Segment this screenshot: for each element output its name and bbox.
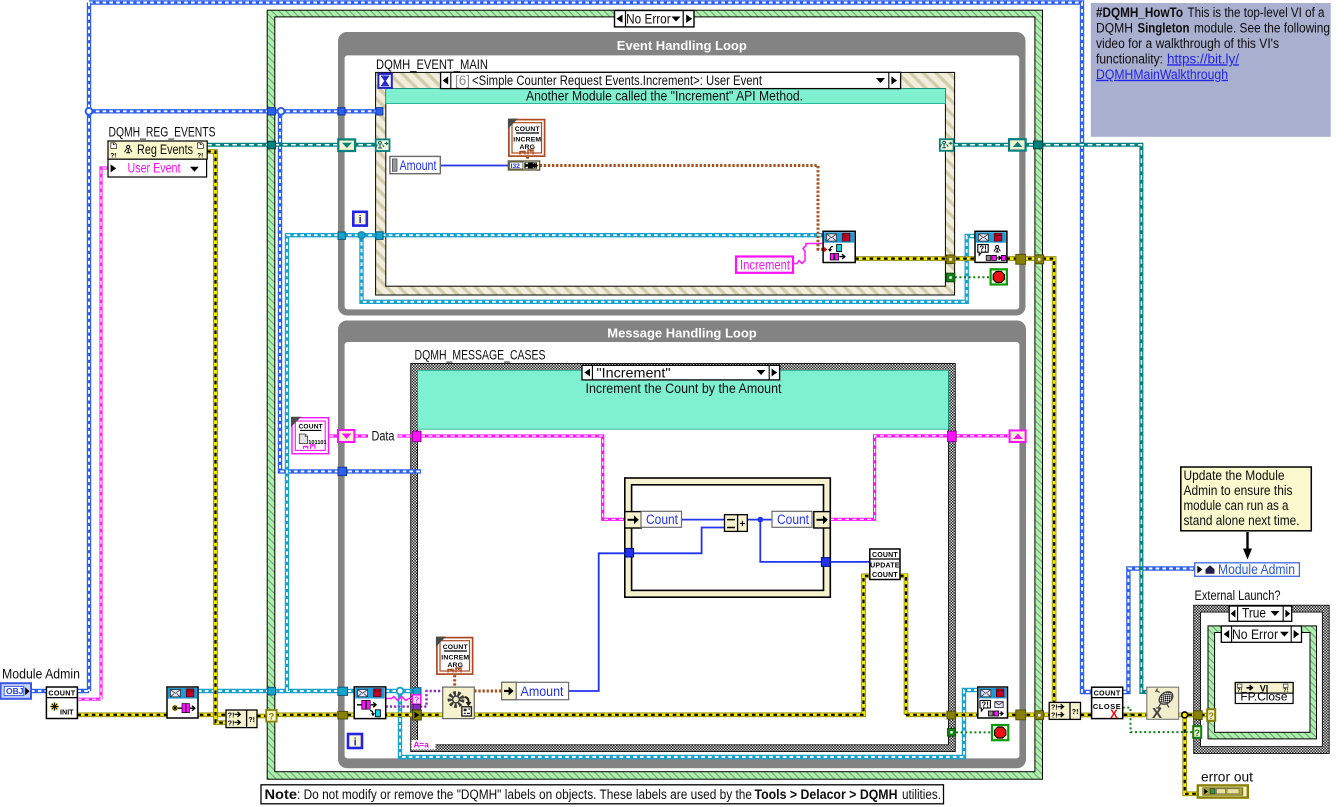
event structure DQMH_EVENT_MAIN border: [376, 72, 955, 295]
svg-text:stand alone next time.: stand alone next time.: [1184, 513, 1300, 528]
tunnel: IPE left element in: [625, 512, 641, 528]
tunnel: error on external case (olive): [1194, 711, 1203, 720]
shift register: message right (magenta up): [1010, 430, 1026, 442]
wire: module admin class top rail (blue chain): [89, 3, 1092, 693]
svg-text:video for a walkthrough of thi: video for a walkthrough of this VI's: [1096, 36, 1279, 51]
wire: message cluster to shift register (magenta): [330, 434, 339, 437]
tunnel: class wire on event loop left: [338, 108, 345, 115]
tunnel: boolean ? on external case (green): [1193, 726, 1201, 739]
svg-text:?!: ?!: [110, 152, 116, 159]
wire: message loop error out to merge 2 (yellow/black): [955, 712, 1050, 717]
message case A=a indicator: [412, 740, 436, 750]
svg-text:This is the top-level VI of a: This is the top-level VI of a: [1188, 5, 1325, 20]
svg-text:?!: ?!: [228, 720, 235, 727]
tunnel: error junction on event loop right: [1016, 254, 1026, 264]
wire: message stop boolean to loop terminal (green dotted): [956, 731, 992, 733]
svg-text:INCREM: INCREM: [441, 655, 469, 662]
control: Module Admin OBJ constant: [1, 683, 32, 699]
wire: class into event structure (blue chain): [89, 109, 376, 113]
outer case structure (No Error) border: [267, 10, 1042, 779]
dynamic event terminal left: [376, 139, 390, 151]
tunnel: IPE right element out: [814, 512, 830, 528]
svg-text:FP.Close: FP.Close: [1240, 691, 1287, 703]
svg-text:Event Handling Loop: Event Handling Loop: [617, 38, 747, 53]
svg-text:External Launch?: External Launch?: [1195, 588, 1281, 603]
external launch selector True: [1229, 606, 1292, 622]
wire: INCREM ARG type to variant VI (brown): [453, 675, 456, 687]
shift register: reg events left (teal down): [338, 139, 355, 151]
svg-text:Data: Data: [372, 429, 395, 444]
tunnel: error out of event structure (olive): [946, 255, 955, 264]
svg-text:UPDATE: UPDATE: [870, 562, 900, 569]
svg-text:Amount: Amount: [400, 158, 437, 173]
tunnel: queue on case left (cyan): [413, 688, 421, 696]
wire: class branch into message loop (blue chain): [280, 111, 421, 471]
wire: queue refnum riser to event loop (cyan chain): [287, 235, 823, 691]
wire: reg events refnum right to unregister VI (teal): [953, 145, 1146, 692]
svg-text:Amount: Amount: [521, 684, 564, 699]
message handling while loop border: [338, 321, 1026, 769]
svg-text:DQMH_MESSAGE_CASES: DQMH_MESSAGE_CASES: [415, 348, 546, 363]
wire: error rail inside message case with update VI loop (yellow/black): [421, 576, 948, 715]
svg-text:Message Handling Loop: Message Handling Loop: [607, 326, 757, 341]
svg-text:Tools > Delacor > DQMH: Tools > Delacor > DQMH: [755, 787, 898, 802]
svg-text:"Increment": "Increment": [597, 365, 671, 380]
wire: Count to add (blue numeric): [682, 519, 725, 521]
svg-text:i: i: [354, 737, 357, 749]
junction: count value branch: [757, 517, 763, 523]
tunnel: message out on case right (magenta): [948, 431, 957, 441]
wire: variant into variant-to-data VI (violet dotted): [420, 691, 443, 707]
wire: close VI to Module Admin link (blue chain): [1123, 569, 1195, 693]
svg-text:Update the Module: Update the Module: [1184, 468, 1285, 483]
dynamic event terminal right: [940, 139, 954, 151]
svg-text:[6]: [6]: [455, 73, 470, 88]
wire: queue refnum to message check VI (cyan chain): [386, 690, 978, 757]
tunnel: message data on case left (magenta): [413, 431, 421, 441]
wire: error inside external case (yellow/black): [1201, 713, 1208, 718]
control: Reg Events cluster: [108, 141, 207, 159]
label: Increment free label: [736, 257, 793, 273]
subVI: release/destroy events (X satellite): [1147, 687, 1179, 722]
control: Amount (event structure): [390, 156, 440, 173]
tunnel: class on message loop left: [338, 467, 347, 475]
tunnel: error ? on outer case left: [266, 710, 276, 723]
annotation: DQMH HowTo comment box: [1091, 3, 1331, 137]
svg-text:?: ?: [268, 712, 274, 723]
function: merge errors (right column): [1049, 702, 1080, 719]
tunnel: reg events on outer case left: [268, 141, 276, 149]
tunnel: queue refnum on outer case left: [268, 687, 276, 695]
junction: class wire branch: [278, 108, 285, 115]
in-place element structure: [625, 478, 831, 597]
svg-text:Count: Count: [777, 512, 809, 527]
svg-text:Singleton: Singleton: [1138, 20, 1190, 35]
wire: OBJ to INIT (blue chain): [31, 689, 46, 693]
event structure selector: [441, 72, 901, 88]
svg-text:functionality:: functionality:: [1096, 51, 1163, 66]
wire: INCREM ARG type to bundle (brown): [526, 157, 529, 162]
tunnel: class on event structure left: [376, 108, 383, 115]
wire: error rail INIT to merge (yellow/black): [77, 712, 226, 717]
svg-text:True: True: [1242, 606, 1266, 621]
terminal: message loop stop button: [992, 725, 1008, 740]
svg-text:INCREM: INCREM: [513, 137, 541, 144]
junction: error branch to error out: [1182, 712, 1188, 718]
tunnel: reg events on outer case right: [1034, 141, 1043, 149]
message case teal banner: [418, 370, 949, 429]
tunnel: queue on event structure left: [376, 232, 383, 240]
wire: merge out into case (yellow/black): [257, 714, 267, 719]
tunnel: error on message loop left: [338, 711, 348, 719]
terminal: message loop iteration i: [348, 734, 362, 749]
svg-text:DQMH_EVENT_MAIN: DQMH_EVENT_MAIN: [376, 57, 488, 72]
svg-text:i: i: [359, 214, 362, 226]
svg-text:A=a: A=a: [414, 741, 430, 750]
wire: Amount value riser into IPE (blue numeric): [569, 553, 626, 691]
svg-text:Count: Count: [646, 512, 678, 527]
tunnel: message name ? on case left: [412, 695, 420, 705]
subVI: COUNT UPDATE COUNT: [870, 549, 900, 580]
svg-text:INIT: INIT: [60, 708, 74, 717]
tunnel: error arrow on case left (olive): [412, 710, 421, 720]
subVI: dequeue module message: [354, 687, 386, 719]
subVI: COUNT INIT: [46, 687, 77, 719]
control: Module Admin static VI reference: [1195, 562, 1300, 577]
annotation: sticky note Update the Module Admin: [1181, 467, 1312, 531]
outer case selector: No Error: [615, 11, 695, 27]
svg-text:DQMH_REG_EVENTS: DQMH_REG_EVENTS: [109, 125, 216, 140]
svg-text:Module Admin: Module Admin: [1218, 562, 1295, 577]
svg-text:X: X: [1152, 705, 1162, 722]
svg-text:: Do not modify or remove the: : Do not modify or remove the "DQMH" lab…: [297, 787, 752, 802]
wire: merged error through close and release VIs (yellow/black): [1081, 715, 1198, 794]
inner case selector No Error: [1221, 626, 1301, 642]
terminal: event loop stop button: [991, 269, 1007, 284]
wire: amount inside IPE to add (blue numeric): [634, 528, 725, 554]
svg-text:DQMH: DQMH: [1096, 20, 1133, 35]
tunnel: class wire on outer case left: [268, 108, 276, 115]
svg-text:?!: ?!: [979, 245, 987, 254]
wire: user event refnum to ring (pink chain): [77, 168, 109, 699]
type constant: COUNT INCREM ARG (event loop): [508, 119, 545, 157]
svg-text:COUNT: COUNT: [1094, 689, 1121, 698]
subVI: check module stop (event loop): [975, 231, 1007, 262]
message case selector "Increment": [582, 365, 780, 380]
event structure timeout hourglass terminal: [378, 74, 391, 88]
wire: queue refnum create to dequeue (cyan chain): [198, 689, 354, 693]
function: variant to data: [443, 687, 475, 719]
wire: queue refnum to event check VI (cyan chain): [362, 235, 976, 302]
svg-text:+: +: [739, 519, 745, 530]
tunnel: error junction on message loop right: [1016, 710, 1026, 720]
wire: reg events error drop (yellow/black): [207, 152, 226, 723]
svg-text:?: ?: [1194, 728, 1200, 739]
inner no-error case structure border: [1208, 626, 1317, 739]
tunnel: stop boolean on case right (green): [948, 728, 956, 736]
wire: class left vertical (blue chain): [77, 3, 89, 692]
svg-text:https://bit.ly/: https://bit.ly/: [1167, 51, 1239, 66]
annotation: bottom note: [261, 785, 944, 804]
type constant: COUNT INCREM ARG (message loop): [436, 637, 473, 675]
wire: message name out of dequeue (pink squiggle): [386, 697, 413, 701]
event handling while loop border: [338, 32, 1026, 316]
junction: class wire at left riser: [86, 108, 93, 115]
indicator: Amount (message case): [502, 682, 569, 699]
function: merge errors (left column): [226, 710, 257, 728]
function: bundle I32 into cluster: [508, 161, 539, 170]
svg-text:error out: error out: [1201, 769, 1253, 784]
type constant: COUNT message queue (magenta): [291, 417, 329, 454]
subVI: check module stop (message loop): [978, 687, 1008, 718]
svg-text:COUNT: COUNT: [298, 424, 322, 431]
tunnel: message error on outer case right: [1035, 711, 1044, 720]
svg-text:Increment: Increment: [740, 257, 790, 272]
subVI: create module queue: [167, 687, 198, 718]
tunnel: variant on case left (violet): [413, 704, 421, 710]
tunnel: stop boolean out of event structure (green): [946, 273, 955, 282]
control: User Event ring: [108, 159, 207, 177]
svg-text:Reg Events: Reg Events: [137, 142, 193, 157]
svg-text:User Event: User Event: [128, 161, 181, 176]
svg-text:Note: Note: [265, 787, 298, 802]
tunnel: queue on event loop left: [338, 232, 345, 239]
svg-text:DQMHMainWalkthrough: DQMHMainWalkthrough: [1096, 67, 1228, 82]
terminal: event loop iteration i: [353, 212, 367, 226]
tunnel: error ? on inner case (olive): [1207, 709, 1215, 722]
svg-text:Module Admin: Module Admin: [2, 667, 80, 682]
event structure teal banner: [386, 88, 946, 103]
svg-text:COUNT: COUNT: [443, 644, 469, 651]
svg-text:No Error: No Error: [626, 11, 671, 26]
svg-text:#DQMH_HowTo: #DQMH_HowTo: [1096, 5, 1183, 20]
svg-text:X: X: [1110, 709, 1118, 721]
label: Data on wire: [368, 429, 398, 444]
svg-text:COUNT: COUNT: [515, 126, 541, 133]
wire: reg events refnum left (teal): [207, 143, 376, 147]
wire: Increment label to enqueue VI (pink squiggle): [793, 244, 823, 264]
svg-text:Increment the Count by the Amo: Increment the Count by the Amount: [586, 381, 782, 396]
tunnel: error out on case right (olive): [947, 711, 956, 719]
tunnel: IPE right blue square: [821, 558, 830, 567]
svg-text:?: ?: [414, 695, 419, 705]
indicator: error out cluster: [1198, 785, 1248, 797]
svg-text:module. See the following: module. See the following: [1194, 20, 1330, 35]
wire: Data wire into case and to IPE (magenta): [354, 436, 625, 519]
svg-text:?!: ?!: [1072, 709, 1079, 716]
svg-text:utilities.: utilities.: [902, 787, 941, 802]
svg-text:?!: ?!: [1051, 713, 1058, 720]
svg-text:?!: ?!: [981, 700, 989, 709]
svg-text:COUNT: COUNT: [48, 689, 75, 698]
annotation arrow to Module Admin: [1243, 532, 1252, 560]
wire: Amount control to bundle (blue numeric): [440, 165, 508, 167]
shift register: reg events right (teal up): [1009, 139, 1026, 150]
function: increment/add node: [725, 515, 748, 532]
indicator: Count (IPE right): [772, 511, 812, 527]
tunnel: IPE left blue square: [625, 548, 634, 557]
message case structure DQMH_MESSAGE_CASES border: [411, 363, 956, 751]
svg-text:<Simple Counter Request Events: <Simple Counter Request Events.Increment…: [472, 73, 762, 88]
wire: message out of IPE to right shift register (magenta): [830, 436, 1010, 519]
svg-text:COUNT: COUNT: [872, 572, 898, 579]
svg-text:No Error: No Error: [1232, 627, 1278, 642]
wire: error rail to dequeue and case tunnel (yellow/black): [276, 712, 414, 717]
svg-text:COUNT: COUNT: [872, 552, 898, 559]
control: Count (IPE left): [641, 511, 682, 527]
wire: variant data out of dequeue (violet dotted): [386, 705, 413, 707]
wire: event stop boolean to loop terminal (green dotted): [955, 276, 991, 278]
junction: queue wire in message loop: [397, 688, 404, 695]
tunnel: event error on outer case right: [1035, 255, 1044, 264]
svg-text:I32: I32: [511, 163, 521, 170]
subVI: COUNT CLOSE: [1092, 687, 1123, 721]
tunnel: queue on message loop left: [338, 687, 348, 695]
svg-text:?: ?: [1208, 711, 1214, 722]
svg-text:?!: ?!: [228, 712, 235, 719]
subVI: enqueue/post message (event structure): [823, 231, 855, 262]
svg-text:module can run as a: module can run as a: [1184, 498, 1289, 513]
wire: event data cluster to enqueue (brown dotted): [540, 166, 823, 250]
shift register: message left (magenta down): [338, 430, 354, 442]
wire: event loop error rail and drop (yellow/black): [855, 259, 1054, 703]
wire: variant VI to Amount indicator (brown dotted): [474, 690, 501, 693]
svg-text:OBJ: OBJ: [6, 686, 24, 696]
junction: queue wire in event loop: [358, 232, 365, 239]
wire: close VI boolean to external case (green dotted): [1123, 708, 1194, 733]
svg-text:?!: ?!: [197, 152, 203, 159]
svg-text:?!: ?!: [1051, 705, 1058, 712]
external launch case structure border: [1194, 605, 1330, 753]
svg-text:Admin to ensure this: Admin to ensure this: [1184, 483, 1293, 498]
wire: add result to Count indicator and update VI (blue numeric): [747, 520, 870, 562]
invoke node: VI FP.Close: [1235, 683, 1293, 704]
svg-text:?!: ?!: [248, 717, 255, 724]
svg-text:Another Module called the "Inc: Another Module called the "Increment" AP…: [526, 88, 803, 103]
